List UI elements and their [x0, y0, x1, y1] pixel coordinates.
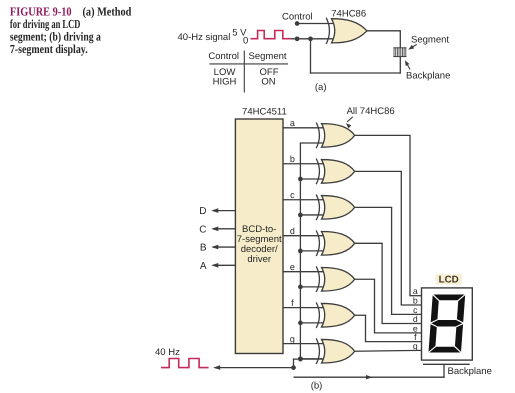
svg-text:HIGH: HIGH	[213, 76, 237, 87]
svg-text:D: D	[199, 206, 206, 217]
svg-text:Control: Control	[208, 51, 239, 62]
svg-text:f: f	[291, 298, 294, 308]
svg-text:e: e	[290, 262, 295, 272]
svg-text:(a) Method: (a) Method	[83, 4, 132, 18]
svg-text:B: B	[200, 243, 207, 254]
svg-text:40-Hz signal: 40-Hz signal	[178, 32, 231, 43]
svg-text:g: g	[290, 334, 295, 344]
svg-text:A: A	[200, 261, 207, 272]
svg-text:(a): (a)	[315, 82, 327, 93]
svg-text:74HC4511: 74HC4511	[242, 107, 287, 118]
svg-text:driver: driver	[247, 254, 271, 265]
svg-text:All 74HC86: All 74HC86	[347, 106, 395, 117]
svg-text:Segment: Segment	[249, 51, 287, 62]
svg-text:Backplane: Backplane	[448, 366, 492, 377]
svg-text:7-segment display.: 7-segment display.	[10, 42, 88, 56]
svg-text:LCD: LCD	[439, 275, 459, 286]
svg-text:C: C	[199, 224, 206, 235]
svg-text:b: b	[290, 154, 295, 164]
svg-text:74HC86: 74HC86	[331, 8, 366, 19]
svg-text:g: g	[413, 341, 418, 351]
svg-text:a: a	[290, 118, 295, 128]
svg-text:0: 0	[243, 35, 248, 46]
svg-text:ON: ON	[261, 76, 275, 87]
svg-text:Segment: Segment	[411, 35, 449, 46]
svg-text:c: c	[290, 190, 295, 200]
svg-text:d: d	[290, 226, 295, 236]
svg-text:Backplane: Backplane	[406, 71, 450, 82]
svg-text:40 Hz: 40 Hz	[155, 347, 180, 358]
svg-text:Control: Control	[282, 12, 313, 23]
svg-text:(b): (b)	[311, 381, 323, 392]
